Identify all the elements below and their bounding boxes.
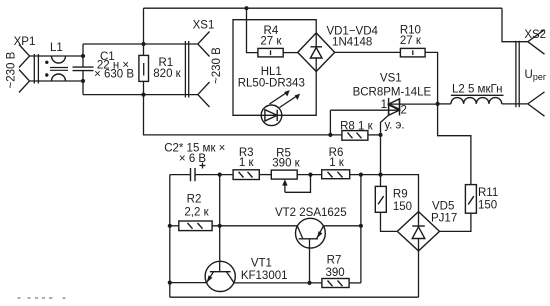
wire gate feed row <box>144 95 342 135</box>
LED HL1 <box>261 105 282 126</box>
resistor R9 <box>375 186 386 212</box>
wire R11 to bridge VD5 <box>440 213 471 231</box>
wire left vertical above C1 <box>82 44 84 67</box>
wire left vertical below C1 <box>82 71 84 95</box>
svg-text:~230 В: ~230 В <box>211 47 223 84</box>
svg-text:390: 390 <box>326 267 345 279</box>
wire bottom rail <box>170 296 419 298</box>
wire C2 node to VT1 base <box>219 175 221 272</box>
transistor VT1 <box>205 261 235 291</box>
svg-text:RL50-DR343: RL50-DR343 <box>238 78 305 90</box>
wire R3 to R5 <box>259 174 271 176</box>
node left column R2 <box>168 224 172 228</box>
wire left riser x=143.5 lower <box>143 81 145 94</box>
svg-text:BCR8PM-14LE: BCR8PM-14LE <box>353 87 432 99</box>
node C1 bottom <box>81 79 85 83</box>
node C1 top <box>81 54 85 58</box>
svg-text:150: 150 <box>478 199 497 211</box>
wire VT1 emitter row <box>170 282 207 284</box>
svg-text:1N4148: 1N4148 <box>332 37 372 49</box>
wire top rail <box>83 43 198 45</box>
svg-text:R11: R11 <box>478 187 498 199</box>
wire R9 top <box>380 135 382 187</box>
inductor L2 <box>438 103 451 105</box>
connector XP1 mating bars <box>33 54 35 84</box>
svg-text:R7: R7 <box>327 255 342 267</box>
wire R7 to riser <box>349 282 361 284</box>
connector XS2 bars <box>515 41 517 107</box>
diode bridge VD1-VD4 <box>298 33 335 72</box>
inductor L1 top polarity dot <box>45 61 48 64</box>
node gate <box>378 133 382 137</box>
svg-text:~230 В: ~230 В <box>6 51 18 88</box>
wire XP1 top pin to L1 <box>30 55 84 57</box>
svg-text:L1: L1 <box>50 42 63 54</box>
svg-text:27 к: 27 к <box>400 35 422 47</box>
watermark dashes <box>18 297 66 299</box>
inductor L1 top winding <box>52 56 66 63</box>
svg-text:820 к: 820 к <box>153 68 181 80</box>
junction node top bus <box>244 6 248 10</box>
wire R10 down to triac node <box>425 52 438 104</box>
transistor VT2 <box>296 218 326 248</box>
resistor R6 <box>322 170 350 179</box>
node left column VT1 <box>168 281 172 285</box>
node MT1 riser <box>328 133 332 137</box>
wire VT2 right to node <box>323 225 361 227</box>
svg-text:PJ17: PJ17 <box>431 213 457 225</box>
svg-text:у. э.: у. э. <box>385 120 405 132</box>
svg-text:XP1: XP1 <box>14 36 36 48</box>
wire VD5 bottom to rail <box>418 251 420 297</box>
socket XS1 top contact <box>198 32 210 57</box>
svg-text:1 к: 1 к <box>239 157 255 169</box>
resistor R1 <box>139 55 149 81</box>
connector XS1 bars <box>184 41 186 98</box>
svg-text:2: 2 <box>401 105 407 117</box>
wire drop from top bus to R4 <box>247 8 258 52</box>
svg-text:1 к: 1 к <box>329 157 345 169</box>
resistor R4 <box>258 48 283 57</box>
svg-text:2,2 к: 2,2 к <box>184 207 209 219</box>
LED HL1 arrows <box>270 92 288 104</box>
wire R9 to VD5 left <box>381 212 398 231</box>
wire top bus to XS2 <box>502 8 528 42</box>
wire R4 to bridge <box>283 52 298 54</box>
svg-text:× 630 В: × 630 В <box>94 68 134 80</box>
svg-text:VT1: VT1 <box>251 258 272 270</box>
wire bottom rail <box>83 94 198 96</box>
node C2 right <box>218 173 222 177</box>
wire VT1 collector row <box>234 282 322 284</box>
node L2 left <box>436 102 440 106</box>
svg-text:27 к: 27 к <box>260 36 282 48</box>
wire MT1 riser <box>329 110 331 135</box>
resistor R7 <box>322 279 349 288</box>
resistor R2 <box>179 221 212 231</box>
wire R6 to VD5 top <box>350 175 419 212</box>
wire L2 node to R11 <box>438 104 471 185</box>
wire R8 to gate node <box>368 134 381 136</box>
socket XS2 bottom contact <box>528 92 545 116</box>
svg-text:1: 1 <box>381 99 387 111</box>
svg-text:L2 5 мкГн: L2 5 мкГн <box>452 84 502 96</box>
capacitor C1 plates <box>73 66 94 68</box>
svg-text:VD5: VD5 <box>432 201 454 213</box>
node R9 top <box>378 173 382 177</box>
svg-text:390 к: 390 к <box>272 158 300 170</box>
inductor L1 bottom polarity dot <box>45 73 48 76</box>
plug XP1 top pin fork <box>19 45 30 68</box>
wire triac MT2 <box>389 103 438 105</box>
potentiometer R5 wiper <box>284 184 286 193</box>
node R7 riser top <box>359 173 363 177</box>
inductor L1 bottom winding <box>52 74 66 81</box>
potentiometer R5 <box>271 170 297 179</box>
wire R7 riser <box>360 175 362 283</box>
svg-text:150: 150 <box>393 201 412 213</box>
node bottom rail R1 <box>141 93 145 97</box>
node VT2 right riser <box>359 224 363 228</box>
wire left column <box>169 175 171 298</box>
node top rail R1 <box>141 42 145 46</box>
socket XS2 top contact <box>528 30 545 55</box>
plug XP1 bottom pin fork <box>19 70 30 93</box>
svg-text:R8 1 к: R8 1 к <box>340 121 373 133</box>
svg-text:R9: R9 <box>393 188 408 200</box>
wire bridge to R10 <box>335 51 401 53</box>
svg-text:× 6 В: × 6 В <box>179 153 207 165</box>
wire triac MT1 <box>330 109 399 111</box>
triac VS1 <box>388 98 390 115</box>
node R6 left <box>308 173 312 177</box>
svg-text:VS1: VS1 <box>380 72 402 84</box>
wire left riser x=143.5 upper <box>143 8 145 55</box>
node VT1 base riser <box>218 224 222 228</box>
node VT2 base bottom <box>307 281 311 285</box>
inductor L1 core <box>50 67 68 69</box>
svg-text:HL1: HL1 <box>261 66 282 78</box>
wire XP1 bottom pin to L1 <box>30 80 84 82</box>
diode bridge VD5 <box>397 212 439 251</box>
wire triac gate <box>381 115 389 135</box>
wire bridge bottom to HL1 <box>282 72 316 116</box>
resistor R10 <box>400 48 425 57</box>
svg-text:VT2 2SA1625: VT2 2SA1625 <box>275 207 347 219</box>
wire R5 to R6 <box>297 174 322 176</box>
socket XS1 bottom contact <box>198 82 210 107</box>
svg-text:XS1: XS1 <box>193 20 215 32</box>
svg-text:R2: R2 <box>187 194 202 206</box>
svg-text:XS2: XS2 <box>524 29 546 41</box>
resistor R3 <box>233 170 259 180</box>
label C2 plus <box>200 163 206 169</box>
wire top mains bus <box>144 7 503 9</box>
svg-text:KF13001: KF13001 <box>241 270 288 282</box>
wire R2 row <box>170 225 179 227</box>
capacitor C2 <box>170 174 191 176</box>
resistor R11 <box>465 185 476 214</box>
wire HL1 frame <box>233 20 316 116</box>
resistor R8 <box>342 131 368 141</box>
